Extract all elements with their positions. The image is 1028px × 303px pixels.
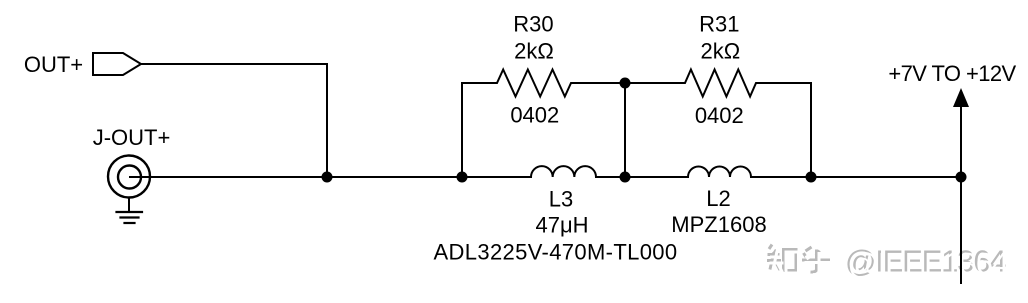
svg-text:L3: L3	[549, 187, 573, 212]
svg-text:0402: 0402	[510, 103, 559, 128]
svg-text:2kΩ: 2kΩ	[701, 39, 741, 64]
svg-text:ADL3225V-470M-TL000: ADL3225V-470M-TL000	[434, 240, 678, 265]
svg-text:2kΩ: 2kΩ	[514, 39, 554, 64]
svg-text:@IEEE1364: @IEEE1364	[848, 246, 1009, 281]
svg-text:47μH: 47μH	[535, 213, 588, 238]
svg-text:OUT+: OUT+	[24, 52, 83, 77]
svg-text:R31: R31	[699, 12, 739, 37]
svg-text:J-OUT+: J-OUT+	[93, 125, 171, 150]
svg-text:R30: R30	[513, 12, 553, 37]
svg-text:L2: L2	[706, 186, 730, 211]
svg-text:0402: 0402	[695, 103, 744, 128]
svg-text:+7V TO +12V: +7V TO +12V	[888, 61, 1016, 86]
svg-text:MPZ1608: MPZ1608	[671, 212, 766, 237]
